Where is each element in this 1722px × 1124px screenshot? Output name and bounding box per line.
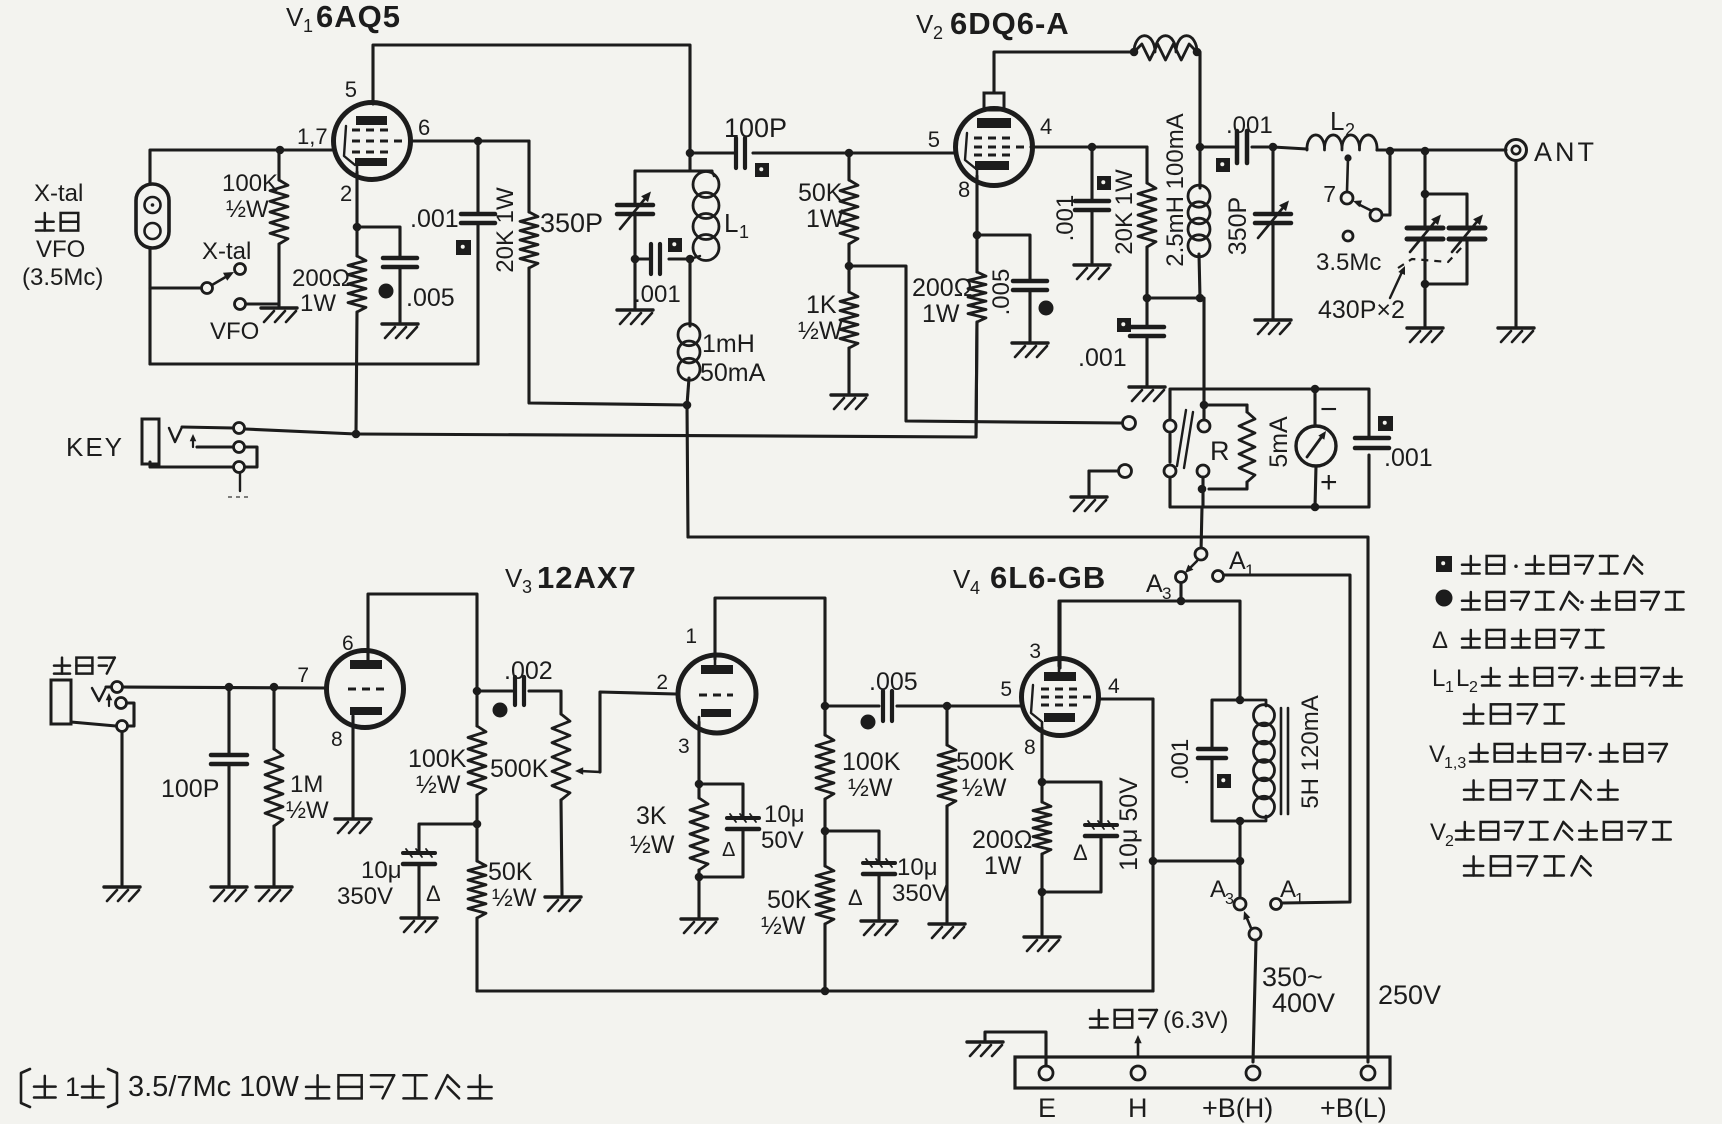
pin label 2 [340, 181, 352, 206]
capacitor .005 coupling V4 [825, 691, 1021, 721]
node suppressor right [1193, 48, 1202, 57]
svg-text:500K: 500K [490, 755, 549, 783]
svg-text:100P: 100P [161, 775, 219, 803]
capacitor 430Px2 right [1425, 194, 1485, 284]
svg-text:8: 8 [958, 177, 970, 202]
ceramic dot .002 [493, 703, 508, 718]
label 500K 1/2W V4 [956, 748, 1015, 802]
capacitor .002 coupling [477, 677, 561, 714]
wire 250V rail [688, 537, 1368, 1062]
label KEY [66, 432, 124, 462]
ground mic [104, 887, 140, 901]
node 1M junction [270, 683, 279, 692]
pin label 8 V2 [958, 177, 970, 202]
svg-text:+: + [1320, 466, 1338, 499]
pin label 3 V3b [678, 735, 690, 758]
label 50K 1/2W V3b [761, 886, 812, 940]
svg-text:50K: 50K [767, 886, 812, 914]
resistor R meter shunt [1209, 405, 1255, 489]
svg-text:½W: ½W [848, 774, 893, 802]
svg-text:.001: .001 [1052, 195, 1079, 242]
switch contact VFO [235, 299, 246, 310]
switch contact UR [1198, 420, 1210, 432]
mic arrow [106, 693, 113, 706]
terminal key line [1123, 417, 1136, 430]
wire meter internal top [1200, 298, 1247, 420]
node 100K/50K junction V3a [473, 820, 482, 829]
meter box outline [1170, 389, 1369, 507]
terminal A1 bottom [1271, 899, 1282, 910]
legend V13 line [1429, 741, 1667, 772]
resistor 500K 1/2W V4 grid [938, 706, 956, 922]
label 2.5mH 100mA (vertical) [1162, 113, 1189, 266]
svg-text:A: A [1280, 876, 1296, 903]
jack mic [51, 680, 71, 724]
inductor L2 [1307, 135, 1377, 150]
suppressor coil [1134, 36, 1197, 52]
capacitor 100P mica [736, 138, 745, 168]
potentiometer 500K [552, 714, 570, 895]
legend delta text [1462, 630, 1604, 648]
jack KEY [142, 419, 159, 464]
label 3.5Mc [1316, 249, 1381, 276]
svg-text:350P: 350P [1224, 197, 1252, 255]
legend kabuseru line [1464, 780, 1618, 799]
svg-text:1M: 1M [290, 771, 323, 798]
svg-text:A: A [1229, 547, 1246, 575]
terminal A3 contact top [1176, 572, 1187, 583]
node 500K V4 junction [943, 702, 952, 711]
wire plate down [1197, 52, 1200, 188]
svg-text:KEY: KEY [66, 432, 124, 462]
label 3K 1/2W [630, 802, 675, 859]
svg-text:6AQ5: 6AQ5 [316, 0, 401, 34]
mica square mod [1217, 774, 1231, 788]
ceramic dot .005 [861, 715, 876, 730]
svg-text:3: 3 [1029, 640, 1041, 663]
node grid/100K junction [276, 146, 285, 155]
ground 350P output [1255, 320, 1291, 334]
label .005 [406, 284, 455, 312]
svg-text:100P: 100P [724, 113, 787, 143]
terminal key sleeve [234, 462, 245, 473]
capacitor .001 mica screen [461, 141, 495, 364]
label 250V [1378, 980, 1441, 1010]
node 350P bottom [631, 255, 640, 264]
wire mic to grid [123, 687, 327, 688]
pin label 5 [345, 77, 357, 102]
svg-text:200Ω: 200Ω [292, 265, 350, 292]
mica square B+ bypass [1117, 318, 1131, 332]
label .001 B+ bypass [1078, 344, 1127, 372]
svg-text:50mA: 50mA [700, 359, 766, 387]
svg-text:L: L [1330, 106, 1344, 136]
svg-text:1: 1 [685, 625, 697, 648]
svg-text:20K 1W: 20K 1W [1111, 169, 1138, 255]
svg-text:1: 1 [739, 222, 749, 242]
label 10u350V V3b [892, 854, 948, 907]
node suppressor left [1130, 48, 1139, 57]
wire V4 plate [1057, 601, 1060, 666]
capacitor 350P output variable [1255, 143, 1291, 318]
jack tip contact V [169, 427, 182, 442]
svg-text:+B(L): +B(L) [1320, 1093, 1387, 1123]
svg-text:5: 5 [1000, 678, 1012, 701]
svg-text:1,7: 1,7 [297, 124, 328, 149]
wire key mid-sleeve link [245, 447, 257, 467]
node 100K/50K junction V3b [821, 827, 830, 836]
switch contact UL [1164, 420, 1176, 432]
ground B+ bypass [1129, 387, 1165, 401]
label 5mA (vertical) [1265, 416, 1293, 468]
wire 430P ground [1423, 284, 1426, 326]
svg-text:100K: 100K [408, 745, 467, 773]
svg-text:400V: 400V [1272, 988, 1335, 1018]
node 430P bottom [1421, 280, 1430, 289]
label .005 coupling [869, 668, 918, 696]
capacitor .001 tank [651, 244, 660, 274]
ground 500K pot [545, 897, 581, 911]
legend mica symbol [1436, 556, 1452, 572]
label 100P [724, 113, 787, 143]
svg-text:200Ω: 200Ω [972, 826, 1032, 854]
wire L2 tap [1344, 154, 1351, 191]
resistor 200ohm 1W cathode [348, 256, 366, 433]
wire mic mid-sleeve link [127, 703, 134, 726]
label .001 meter [1384, 444, 1433, 472]
label A1 bottom [1280, 876, 1304, 908]
label plus [1320, 466, 1338, 499]
svg-text:6L6-GB: 6L6-GB [990, 560, 1106, 595]
legend delta symbol [1432, 627, 1448, 654]
svg-text:.001: .001 [410, 205, 459, 233]
wire tank bottom [635, 257, 690, 260]
resistor 3K 1/2W [690, 798, 708, 881]
svg-text:VFO: VFO [210, 318, 259, 345]
terminal key tip [234, 423, 245, 434]
wire bias to key switch [849, 266, 1121, 423]
svg-text:4: 4 [1108, 675, 1120, 698]
wire B+ mod link [1149, 857, 1240, 866]
ground 430P [1407, 328, 1443, 342]
svg-text:½W: ½W [286, 797, 329, 824]
node 20K bottom [1143, 294, 1152, 303]
svg-text:1W: 1W [300, 290, 336, 317]
tube label V2 6DQ6-A [916, 6, 1070, 43]
wire X-tal box bottom rail [150, 362, 478, 365]
switch contact LL [1164, 465, 1176, 477]
label 200ohm 1W V4 [972, 826, 1032, 880]
legend ceramic symbol [1436, 590, 1453, 607]
tube V2 6DQ6-A [956, 93, 1033, 186]
pin label 5 V4 [1000, 678, 1012, 701]
ground key line [1071, 497, 1107, 511]
ground 100P input [211, 887, 247, 901]
pin label 8 V3a [331, 728, 343, 751]
resistor 100K 1/2W V3b plate [816, 706, 834, 831]
resistor 20K 1W V2 [1138, 147, 1156, 298]
wire audio B+ rail [477, 989, 1153, 992]
label 10u50V V4 (vertical) [1115, 777, 1143, 871]
capacitor .001 coupling [1237, 131, 1247, 163]
terminal A3 blade bottom [1249, 928, 1261, 940]
wire A3 to plate rail [1177, 583, 1186, 605]
svg-text:1: 1 [1295, 891, 1304, 908]
caption dai-1-zu [21, 1069, 492, 1107]
ground .005 [382, 324, 418, 338]
label L2 [1330, 106, 1355, 140]
switch blade L2 tap [1353, 200, 1382, 221]
terminal tap spare [1343, 231, 1353, 241]
wire choke bottom down [1236, 821, 1245, 865]
label A3 bottom [1210, 876, 1234, 908]
svg-text:10μ: 10μ [764, 801, 805, 828]
svg-text:V: V [916, 9, 934, 39]
label 20K 1W V2 (vertical) [1111, 169, 1138, 255]
wire tip to contact [182, 427, 233, 428]
terminal ANT [1506, 140, 1527, 161]
capacitor .001 mod choke [1198, 700, 1240, 821]
svg-text:V: V [286, 2, 304, 32]
svg-text:½W: ½W [798, 317, 843, 345]
svg-text:1: 1 [65, 1072, 80, 1102]
resistor 50K 1W grid [840, 153, 858, 266]
power strip [1015, 1057, 1390, 1088]
svg-text:250V: 250V [1378, 980, 1441, 1010]
resistor 1K 1/2W [840, 266, 858, 393]
capacitor 10u 350V V3b [825, 831, 895, 919]
wire key rail [245, 429, 976, 437]
crystal X-tal [136, 184, 169, 248]
label 1M 1/2W [286, 771, 329, 824]
node .002 junction [473, 687, 482, 696]
ground 500K V4 [929, 924, 965, 938]
mica square [456, 240, 471, 255]
mica square coupling [1216, 158, 1230, 172]
svg-text:10μ: 10μ [361, 857, 402, 884]
svg-text:5: 5 [345, 77, 357, 102]
svg-text:20K 1W: 20K 1W [492, 187, 519, 273]
wire mic ground lead [120, 732, 123, 885]
ground 1M [256, 887, 292, 901]
ground 10u350V V3b [861, 921, 897, 935]
switch contact LR [1197, 465, 1209, 477]
label 200ohm 1W V2 [912, 274, 972, 328]
wire V4 cathode [1038, 728, 1047, 802]
label .002 [504, 657, 553, 685]
wire V4 cathode ground [1040, 892, 1043, 935]
mica square meter [1378, 416, 1393, 431]
pin label 6 V3a [342, 632, 354, 655]
inductor L1 [690, 171, 719, 261]
node 50K/1K junction [845, 262, 854, 271]
label X-tal (switch) [202, 238, 251, 265]
svg-text:A: A [1210, 876, 1226, 903]
label minus [1320, 393, 1338, 426]
svg-text:.001: .001 [1167, 739, 1194, 786]
heater arrow [1134, 1035, 1141, 1057]
legend L1L2 line [1432, 665, 1682, 696]
node choke bottom [1236, 817, 1245, 826]
svg-text:2.5mH 100mA: 2.5mH 100mA [1162, 113, 1189, 266]
inductor 1mH 50mA choke [678, 259, 700, 405]
svg-text:50K: 50K [488, 858, 533, 886]
pin label 4 V4 [1108, 675, 1120, 698]
terminal mic mid [116, 698, 127, 709]
svg-text:3.5Mc: 3.5Mc [1316, 249, 1381, 276]
capacitor 10u 50V V3b [699, 784, 759, 877]
wire ANT ground [1514, 161, 1517, 326]
svg-text:3: 3 [678, 735, 690, 758]
label .005 V2 (vertical) [988, 269, 1015, 316]
terminal A3 bottom [1234, 898, 1246, 910]
tube V1 6AQ5 [334, 103, 411, 180]
ground screen bypass [1074, 265, 1110, 279]
pin label 1,7 [297, 124, 328, 149]
terminal A3 top [1195, 548, 1207, 560]
label delta V3b2 [848, 885, 863, 910]
wire key sleeve stub [228, 473, 252, 497]
label +B(H) [1202, 1093, 1273, 1123]
svg-text:X-tal: X-tal [34, 180, 83, 207]
svg-text:.001: .001 [1226, 112, 1273, 139]
terminal +B(H) [1246, 1066, 1260, 1080]
capacitor 10u 350V V3a [403, 824, 477, 916]
wire V3a plate [368, 594, 477, 691]
label 1K 1/2W [798, 291, 843, 345]
wire screen/B+ vertical [1151, 699, 1154, 991]
svg-text:½W: ½W [226, 196, 269, 223]
svg-text:V: V [953, 564, 971, 594]
svg-text:.005: .005 [406, 284, 455, 312]
label 350P output (vertical) [1224, 197, 1252, 255]
pin label 1 V3b [685, 625, 697, 648]
svg-text:−: − [1320, 393, 1338, 426]
svg-text:2: 2 [1345, 120, 1355, 140]
label ANT [1534, 137, 1597, 167]
suppressor R parallel [1134, 44, 1197, 60]
svg-text:100K: 100K [842, 748, 901, 776]
svg-text:½W: ½W [761, 912, 806, 940]
label H [1128, 1093, 1148, 1123]
wire E ground [985, 1032, 1046, 1066]
ground 3K [681, 919, 717, 933]
wire mic sleeve [71, 722, 116, 726]
keying arrow [190, 434, 197, 447]
svg-text:10μ: 10μ [897, 854, 938, 881]
node .005 junction [821, 702, 830, 711]
switch blade A3 top [1185, 561, 1197, 573]
wire V4 screen [1098, 697, 1153, 700]
wire V2 screen pin4 [1031, 145, 1147, 148]
wire +B(H) feed [1253, 940, 1256, 1062]
label 50K 1/2W V3a [488, 858, 537, 912]
label delta V3a [426, 881, 441, 906]
label 7 [1323, 181, 1336, 207]
wire cathode bypass branch [977, 235, 1030, 281]
svg-text:500K: 500K [956, 748, 1015, 776]
gang link dashed [1398, 247, 1462, 268]
label 430Px2 [1318, 296, 1405, 324]
tube label V3 12AX7 [505, 560, 637, 597]
ceramic dot [379, 284, 394, 299]
svg-text:1mH: 1mH [702, 330, 755, 358]
wire B+ feed down [687, 405, 688, 537]
ground .005 V2 [1012, 343, 1048, 357]
label 350-400V [1262, 962, 1335, 1018]
svg-text:.005: .005 [869, 668, 918, 696]
inductor 2.5mH 100mA [1188, 185, 1210, 298]
svg-text:Δ: Δ [1073, 840, 1088, 865]
svg-text:2: 2 [933, 23, 943, 43]
label 10u50V V3b [761, 801, 805, 854]
wire V2 cathode [973, 176, 982, 272]
svg-text:L: L [724, 208, 738, 238]
svg-text:Δ: Δ [848, 885, 863, 910]
svg-text:350V: 350V [892, 880, 948, 907]
pin label 7 V3a [297, 664, 309, 687]
wire A1 line [1224, 575, 1350, 903]
label 100P input [161, 775, 219, 803]
svg-text:1: 1 [303, 16, 313, 36]
label delta V4 [1073, 840, 1088, 865]
ground ANT [1498, 328, 1534, 342]
wire antenna line [1377, 147, 1506, 156]
svg-text:100K: 100K [222, 170, 278, 197]
label .001 screen (vertical) [1052, 195, 1079, 242]
svg-text:.005: .005 [988, 269, 1015, 316]
label 500K [490, 755, 549, 783]
pin label 5 V2 [928, 127, 940, 152]
wire V3a cathode ground [351, 716, 354, 817]
svg-text:+B(H): +B(H) [1202, 1093, 1273, 1123]
svg-text:(6.3V): (6.3V) [1163, 1007, 1228, 1034]
svg-text:½W: ½W [416, 771, 461, 799]
node choke/20K junction [683, 401, 692, 410]
label 100K 1/2W [222, 170, 278, 223]
mica square 100P [755, 163, 769, 177]
node L1 bottom [686, 255, 695, 264]
wire V1 plate top rail [373, 45, 690, 153]
label L1 [724, 208, 749, 242]
capacitor .001 B+ bypass [1130, 298, 1164, 385]
label A1 top [1229, 547, 1254, 580]
svg-text:1W: 1W [806, 205, 844, 233]
tube V3b 12AX7 [678, 655, 756, 733]
svg-text:4: 4 [1040, 114, 1052, 139]
svg-text:3: 3 [1225, 891, 1234, 908]
wire V1 screen pin6 [410, 139, 529, 142]
node B+ screen junction [1196, 294, 1205, 303]
label 200ohm 1W [292, 265, 350, 317]
wire V1 cathode [353, 172, 362, 256]
svg-text:2: 2 [656, 671, 668, 694]
svg-text:4: 4 [970, 578, 980, 598]
wire VFO contact to ground node [246, 302, 279, 305]
label 50K 1W [798, 179, 844, 233]
svg-text:6: 6 [418, 115, 430, 140]
pin label 4 V2 [1040, 114, 1052, 139]
wire V2 cathode return corner [976, 322, 977, 437]
pot wiper [575, 692, 676, 775]
svg-text:ANT: ANT [1534, 137, 1597, 167]
svg-text:VFO: VFO [36, 236, 85, 263]
svg-text:Δ: Δ [426, 881, 441, 906]
svg-text:L: L [1432, 665, 1445, 692]
switch blade meter [1177, 410, 1193, 468]
resistor 200ohm 1W V2 [968, 272, 986, 437]
label R [1210, 436, 1230, 466]
